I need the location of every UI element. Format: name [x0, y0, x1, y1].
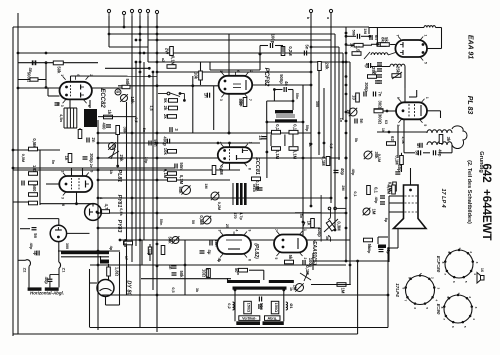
svg-text:25k: 25k — [395, 66, 400, 74]
svg-text:2n: 2n — [89, 164, 93, 169]
svg-text:0,1M: 0,1M — [321, 156, 326, 166]
svg-text:0,5: 0,5 — [329, 143, 333, 148]
svg-text:10k: 10k — [194, 72, 199, 80]
svg-text:4n: 4n — [236, 271, 240, 275]
svg-text:2k: 2k — [163, 114, 168, 119]
svg-text:4,7p: 4,7p — [239, 212, 243, 220]
svg-text:6: 6 — [236, 70, 240, 72]
svg-text:7: 7 — [396, 35, 400, 37]
svg-text:5n: 5n — [142, 128, 146, 133]
svg-text:7: 7 — [404, 300, 408, 302]
svg-text:0,1M: 0,1M — [387, 185, 392, 195]
svg-text:1: 1 — [457, 292, 461, 294]
svg-text:PL81: PL81 — [116, 170, 122, 183]
svg-text:40p: 40p — [340, 168, 345, 176]
svg-text:8: 8 — [87, 105, 91, 107]
svg-text:8μ: 8μ — [384, 218, 388, 223]
svg-text:1: 1 — [303, 229, 307, 231]
svg-text:30p: 30p — [144, 157, 148, 164]
svg-text:1n: 1n — [339, 118, 343, 123]
svg-text:300p: 300p — [364, 82, 369, 92]
svg-text:10k: 10k — [163, 148, 168, 156]
svg-text:4p: 4p — [109, 246, 113, 251]
svg-text:500p: 500p — [279, 74, 284, 84]
svg-text:2: 2 — [469, 251, 473, 253]
svg-text:17LP4: 17LP4 — [395, 283, 400, 297]
svg-text:3: 3 — [60, 105, 64, 107]
svg-text:3: 3 — [60, 197, 64, 199]
svg-text:40: 40 — [116, 90, 120, 94]
svg-text:0,2M: 0,2M — [217, 202, 221, 210]
svg-text:25: 25 — [225, 224, 229, 228]
svg-text:6: 6 — [76, 74, 80, 76]
svg-text:3: 3 — [219, 99, 223, 101]
svg-text:4: 4 — [218, 142, 222, 144]
svg-text:40p: 40p — [44, 277, 49, 285]
svg-text:300: 300 — [65, 243, 69, 249]
svg-text:0,1M: 0,1M — [275, 150, 280, 160]
svg-text:Abrg.: Abrg. — [267, 316, 277, 320]
svg-text:9: 9 — [396, 97, 400, 99]
svg-text:6n: 6n — [374, 35, 379, 40]
svg-text:40p: 40p — [374, 197, 378, 204]
svg-text:25k: 25k — [119, 155, 124, 163]
svg-text:5k: 5k — [384, 37, 389, 42]
svg-text:470: 470 — [233, 212, 237, 218]
svg-text:2: 2 — [89, 74, 93, 76]
svg-text:5n: 5n — [415, 150, 420, 155]
svg-text:Horizontal-Abgl.: Horizontal-Abgl. — [30, 291, 64, 296]
svg-text:50: 50 — [191, 220, 195, 224]
svg-text:0,1M: 0,1M — [179, 175, 184, 185]
svg-text:5: 5 — [423, 124, 427, 126]
svg-text:0,1M: 0,1M — [171, 56, 176, 66]
svg-text:5n: 5n — [373, 71, 378, 76]
svg-text:4,7: 4,7 — [104, 204, 109, 210]
svg-text:63: 63 — [384, 120, 388, 124]
svg-text:5: 5 — [424, 62, 428, 64]
svg-text:0,1: 0,1 — [293, 124, 298, 130]
svg-text:0,5: 0,5 — [171, 287, 175, 292]
svg-text:300p: 300p — [89, 153, 94, 163]
svg-text:PCF82: PCF82 — [263, 68, 269, 87]
svg-text:1: 1 — [458, 247, 462, 249]
svg-text:10Ω: 10Ω — [202, 269, 207, 278]
svg-text:1: 1 — [419, 273, 423, 275]
svg-text:50k: 50k — [179, 271, 184, 279]
svg-text:2: 2 — [430, 277, 434, 279]
svg-text:4: 4 — [235, 230, 239, 232]
svg-text:1,5: 1,5 — [149, 105, 153, 110]
svg-text:2: 2 — [468, 296, 472, 298]
svg-text:5: 5 — [464, 281, 468, 283]
svg-text:16: 16 — [480, 268, 484, 272]
svg-text:a2: a2 — [161, 58, 165, 62]
svg-text:(2. Teil des Schaltbildes): (2. Teil des Schaltbildes) — [466, 160, 472, 224]
svg-text:0,1: 0,1 — [353, 191, 357, 196]
svg-text:0,2M: 0,2M — [288, 46, 293, 56]
svg-text:300Ω: 300Ω — [378, 114, 383, 125]
svg-text:5n: 5n — [33, 233, 38, 238]
svg-text:1k: 1k — [307, 221, 312, 226]
svg-text:1: 1 — [60, 171, 64, 173]
svg-text:50n: 50n — [295, 93, 299, 100]
svg-text:50k: 50k — [168, 237, 173, 245]
svg-text:9: 9 — [447, 251, 451, 253]
svg-text:2: 2 — [248, 142, 252, 144]
svg-text:50n: 50n — [239, 100, 244, 107]
svg-text:2M: 2M — [341, 185, 345, 190]
svg-text:17: 17 — [124, 256, 128, 260]
svg-text:100p: 100p — [271, 34, 276, 44]
svg-text:E=90: E=90 — [436, 304, 441, 315]
svg-text:9: 9 — [446, 296, 450, 298]
svg-text:20k: 20k — [325, 63, 330, 71]
svg-text:5k: 5k — [288, 255, 293, 260]
svg-text:5n: 5n — [299, 214, 303, 219]
svg-text:7: 7 — [443, 273, 447, 275]
svg-text:7: 7 — [442, 318, 446, 320]
svg-text:150Ω: 150Ω — [247, 303, 252, 313]
svg-text:PL 83: PL 83 — [466, 96, 473, 115]
svg-text:50n: 50n — [259, 303, 264, 311]
svg-text:1n: 1n — [204, 93, 209, 98]
svg-text:63: 63 — [390, 136, 395, 141]
svg-text:3: 3 — [218, 168, 222, 170]
svg-text:Z2: Z2 — [23, 268, 28, 273]
svg-text:150Ω: 150Ω — [274, 303, 279, 313]
svg-text:8: 8 — [247, 168, 251, 170]
svg-text:4: 4 — [473, 273, 477, 275]
svg-text:3: 3 — [475, 262, 479, 264]
svg-text:4,5n: 4,5n — [59, 114, 64, 123]
svg-text:8: 8 — [61, 204, 65, 206]
svg-text:1M: 1M — [341, 288, 346, 294]
svg-text:3: 3 — [218, 230, 222, 232]
svg-text:1,5: 1,5 — [356, 46, 361, 52]
svg-text:6: 6 — [452, 281, 456, 283]
svg-text:4μ: 4μ — [217, 258, 221, 263]
svg-text:5n: 5n — [359, 119, 364, 124]
svg-text:1k: 1k — [107, 110, 112, 115]
svg-text:0,5M: 0,5M — [21, 154, 25, 162]
svg-text:4n: 4n — [416, 143, 421, 148]
svg-text:7: 7 — [248, 99, 252, 101]
svg-text:50n: 50n — [179, 162, 184, 170]
svg-text:180: 180 — [32, 165, 37, 173]
svg-text:5: 5 — [425, 307, 429, 309]
svg-text:6: 6 — [451, 326, 455, 328]
svg-text:500: 500 — [32, 185, 37, 193]
svg-text:7n: 7n — [378, 92, 383, 97]
svg-text:4: 4 — [472, 318, 476, 320]
svg-text:(PL82): (PL82) — [253, 243, 259, 259]
svg-text:1M: 1M — [204, 183, 208, 188]
svg-text:6,8k: 6,8k — [119, 208, 123, 216]
svg-text:5n: 5n — [51, 160, 55, 165]
svg-text:50n: 50n — [159, 219, 163, 226]
svg-text:1: 1 — [60, 74, 64, 76]
svg-text:40p: 40p — [351, 169, 355, 176]
svg-text:5n: 5n — [305, 45, 310, 50]
svg-text:2: 2 — [249, 70, 253, 72]
svg-text:1,5k: 1,5k — [401, 136, 405, 144]
svg-text:500Ω: 500Ω — [27, 72, 32, 83]
svg-text:7: 7 — [274, 229, 278, 231]
svg-text:2: 2 — [303, 258, 307, 260]
svg-text:EAA 91: EAA 91 — [467, 35, 474, 59]
svg-text:300: 300 — [315, 101, 319, 107]
svg-text:17 LP 4: 17 LP 4 — [440, 188, 446, 207]
svg-text:15k: 15k — [130, 97, 135, 105]
svg-text:9: 9 — [408, 277, 412, 279]
svg-text:50p: 50p — [305, 125, 309, 132]
svg-text:0,1: 0,1 — [374, 187, 379, 193]
svg-text:0,5M: 0,5M — [32, 138, 37, 148]
svg-text:8: 8 — [401, 288, 405, 290]
svg-text:2n: 2n — [91, 138, 96, 143]
svg-text:0,2M: 0,2M — [219, 165, 224, 175]
svg-text:PY81: PY81 — [116, 195, 122, 208]
svg-text:PY83: PY83 — [116, 220, 122, 233]
svg-text:400p: 400p — [163, 136, 168, 146]
svg-text:1k: 1k — [289, 287, 293, 291]
svg-text:5: 5 — [463, 326, 467, 328]
svg-text:1n: 1n — [258, 135, 263, 140]
svg-text:4n: 4n — [168, 265, 173, 270]
svg-text:0,25: 0,25 — [123, 239, 128, 248]
svg-text:Vertikal-: Vertikal- — [242, 316, 257, 320]
svg-text:5: 5 — [274, 258, 278, 260]
svg-text:3: 3 — [474, 307, 478, 309]
svg-text:9: 9 — [89, 171, 93, 173]
svg-text:Ø1: Ø1 — [289, 303, 294, 309]
svg-text:642 +644EWT: 642 +644EWT — [480, 163, 492, 240]
svg-text:1,8Ω: 1,8Ω — [115, 267, 120, 277]
svg-text:8: 8 — [248, 259, 252, 261]
svg-text:ECC82: ECC82 — [99, 88, 105, 108]
svg-text:50k: 50k — [56, 66, 61, 74]
svg-text:50k: 50k — [125, 79, 130, 87]
svg-text:5n: 5n — [254, 187, 259, 192]
svg-text:50μ: 50μ — [147, 249, 151, 256]
svg-text:0,5M: 0,5M — [199, 215, 204, 225]
svg-text:9: 9 — [248, 230, 252, 232]
svg-text:1: 1 — [425, 97, 429, 99]
svg-text:40p: 40p — [29, 243, 33, 250]
svg-text:4μ: 4μ — [207, 250, 212, 255]
svg-text:1: 1 — [219, 70, 223, 72]
svg-text:1M: 1M — [372, 209, 377, 215]
svg-text:2W: 2W — [165, 48, 170, 54]
svg-text:40p: 40p — [397, 164, 402, 172]
svg-text:0,5: 0,5 — [134, 117, 138, 122]
svg-text:2k: 2k — [163, 106, 168, 111]
svg-text:4p: 4p — [365, 63, 370, 68]
svg-text:0,3M: 0,3M — [337, 221, 342, 231]
svg-text:5k: 5k — [163, 98, 168, 103]
svg-text:0,1: 0,1 — [275, 124, 280, 130]
svg-text:400: 400 — [102, 123, 107, 131]
svg-text:ECC81: ECC81 — [254, 157, 260, 175]
svg-text:3k: 3k — [446, 137, 451, 142]
svg-text:E=P=80: E=P=80 — [436, 256, 441, 273]
svg-text:0,1M: 0,1M — [163, 169, 168, 179]
svg-text:4p: 4p — [33, 251, 38, 256]
svg-text:0,2: 0,2 — [227, 303, 232, 309]
svg-text:4: 4 — [434, 300, 438, 302]
svg-text:0,1M: 0,1M — [293, 150, 298, 160]
svg-text:1: 1 — [424, 35, 428, 37]
svg-text:DY 80: DY 80 — [126, 280, 132, 295]
svg-text:1k: 1k — [64, 156, 69, 161]
svg-text:1M: 1M — [363, 28, 368, 34]
svg-text:30Ω: 30Ω — [378, 100, 383, 109]
svg-text:3: 3 — [437, 288, 441, 290]
svg-text:10: 10 — [352, 95, 357, 100]
svg-text:100p: 100p — [308, 258, 313, 268]
svg-text:Z1: Z1 — [62, 268, 67, 273]
svg-text:6: 6 — [413, 307, 417, 309]
svg-text:50k: 50k — [178, 187, 183, 195]
svg-text:40p: 40p — [367, 247, 371, 254]
svg-text:0,1M: 0,1M — [377, 154, 381, 162]
